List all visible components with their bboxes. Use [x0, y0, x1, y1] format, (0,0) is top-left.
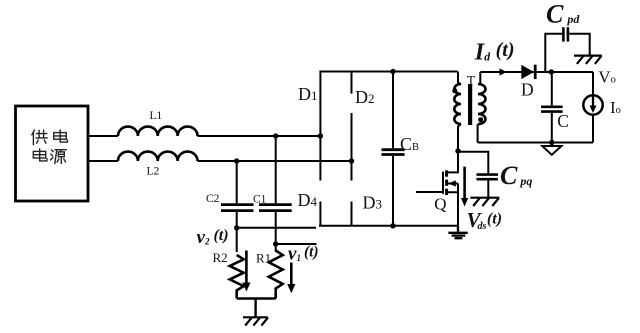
current source Io — [583, 95, 602, 114]
MOSFET body arrow — [447, 180, 458, 186]
wire L1 lead-in — [88, 135, 118, 137]
diode D2 upper lead — [351, 71, 353, 94]
inductor L2 — [118, 152, 198, 161]
node v1 — [273, 241, 278, 246]
capacitor C1 — [259, 136, 292, 252]
node drain junction — [455, 148, 460, 153]
resistor R1 — [269, 251, 283, 299]
wire drain node to Cpq — [458, 152, 488, 173]
MOSFET gate lead — [416, 191, 443, 193]
wire rail to transformer primary — [458, 72, 461, 85]
源 — [51, 150, 67, 164]
MOSFET gate bar — [442, 172, 444, 194]
svg-text:Q: Q — [434, 195, 446, 214]
wire ground stem — [254, 299, 256, 318]
node v2 — [234, 225, 239, 230]
capacitor C2 — [221, 161, 254, 252]
inductor L1 — [118, 127, 198, 136]
secondary top lead — [479, 72, 481, 85]
signal ground triangle — [542, 143, 561, 155]
svg-text:C2: C2 — [206, 193, 220, 205]
svg-text:C: C — [557, 111, 569, 131]
node output — [549, 69, 554, 74]
node L1-C1 — [273, 133, 278, 138]
capacitor Cpq — [477, 175, 499, 198]
wire L2 lead-in — [88, 160, 118, 162]
diode D — [521, 65, 535, 79]
chassis ground (Cpd) — [574, 56, 602, 64]
transformer primary polarity dot — [452, 88, 457, 93]
voltage arrow v2 — [242, 251, 250, 292]
capacitor CB — [382, 72, 405, 226]
earth ground (MOSFET source) — [448, 226, 467, 238]
wire L1 to bridge — [198, 135, 321, 137]
wire v1 stub — [276, 243, 317, 245]
svg-text:T: T — [467, 73, 476, 88]
capacitor C — [541, 72, 563, 143]
diode D4 lower lead — [319, 202, 321, 226]
node L1-D1 — [318, 133, 323, 138]
chassis ground (input) — [243, 317, 268, 325]
transformer secondary winding — [478, 84, 486, 124]
secondary bottom lead — [477, 124, 479, 143]
wire Io to bottom — [592, 115, 594, 143]
供 — [32, 130, 48, 145]
capacitor Cpd branch — [545, 27, 589, 72]
wire bridge top rail — [320, 71, 457, 73]
MOSFET channel bars — [445, 170, 448, 195]
transformer secondary polarity dot — [478, 117, 483, 122]
power source box — [16, 106, 89, 201]
node L2-D3 — [349, 158, 354, 163]
wire output right and down — [592, 72, 594, 95]
node C bottom — [549, 140, 554, 145]
wire L2 to bridge — [198, 160, 352, 162]
svg-text:C1: C1 — [253, 193, 267, 205]
diode D3 lower lead — [351, 202, 353, 226]
svg-text:L2: L2 — [147, 165, 160, 177]
MOSFET drain lead — [447, 151, 458, 172]
resistor R2 — [230, 255, 244, 299]
current arrow Id — [500, 68, 507, 75]
wire bottom rail to v2 node — [237, 227, 316, 229]
diode D2 lower segment — [351, 113, 353, 181]
diode branch D1 — [319, 71, 321, 181]
transformer T primary winding — [454, 84, 461, 124]
svg-text:L1: L1 — [150, 110, 163, 122]
svg-text:D: D — [521, 80, 534, 100]
power source label 供电电源 — [32, 130, 68, 164]
voltage arrow Vds — [461, 167, 468, 207]
node L2-C2 — [234, 158, 239, 163]
svg-text:R2: R2 — [213, 250, 228, 265]
chassis ground (Cpq) — [470, 198, 499, 206]
node CB top — [390, 69, 395, 74]
voltage arrow v1 — [287, 263, 295, 294]
wire resistor bottoms — [237, 297, 276, 299]
wire secondary top to output — [480, 71, 593, 73]
node CB bottom — [390, 223, 395, 228]
transformer primary bottom lead — [458, 124, 461, 151]
svg-text:R1: R1 — [256, 250, 271, 265]
transformer core — [468, 84, 472, 125]
wire bridge bottom rail — [319, 225, 458, 227]
MOSFET source lead — [447, 184, 458, 226]
wire secondary bottom — [478, 142, 593, 144]
